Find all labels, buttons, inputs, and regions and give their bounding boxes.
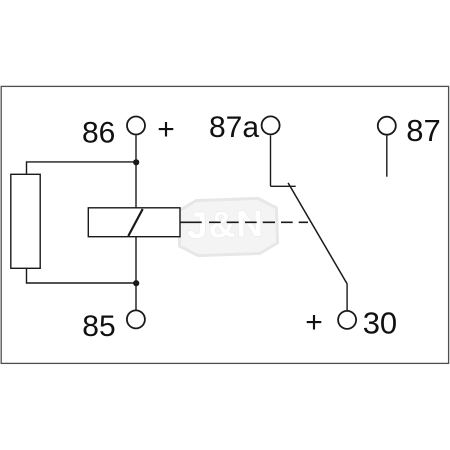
dashed actuation link bbox=[180, 221, 308, 223]
svg-text:J&N: J&N bbox=[186, 203, 264, 247]
terminal circle 86 bbox=[127, 117, 145, 135]
wire 87 stub bbox=[386, 136, 388, 177]
terminal circle 30 bbox=[338, 311, 356, 329]
svg-text:+: + bbox=[157, 113, 175, 146]
svg-text:87a: 87a bbox=[209, 111, 259, 144]
wire arm to 30 terminal bbox=[346, 284, 348, 310]
watermark J&N badge bbox=[178, 198, 278, 256]
frame border bbox=[1, 86, 448, 363]
svg-text:87: 87 bbox=[406, 113, 440, 148]
fixed contact 87a bbox=[271, 185, 296, 187]
terminal circle 85 bbox=[127, 310, 145, 328]
wire resistor bottom to junction bbox=[27, 268, 137, 283]
svg-text:86: 86 bbox=[82, 117, 115, 150]
coil slash bbox=[128, 209, 142, 236]
resistor R (parallel resistor) bbox=[11, 174, 40, 268]
relay coil K1 box bbox=[88, 208, 180, 237]
svg-text:30: 30 bbox=[363, 305, 397, 340]
wire 86 terminal down to coil bbox=[135, 135, 137, 208]
node junction top bbox=[133, 159, 139, 165]
svg-text:+: + bbox=[305, 306, 323, 339]
terminal circle 87 bbox=[378, 117, 396, 135]
wire resistor top to junction bbox=[27, 162, 137, 174]
wire 87a down bbox=[270, 135, 272, 186]
switch arm bbox=[288, 183, 347, 284]
svg-text:85: 85 bbox=[82, 310, 115, 343]
terminal circle 87a bbox=[262, 116, 280, 134]
node junction bottom bbox=[133, 280, 139, 286]
wire coil bottom to junction bbox=[135, 237, 137, 310]
